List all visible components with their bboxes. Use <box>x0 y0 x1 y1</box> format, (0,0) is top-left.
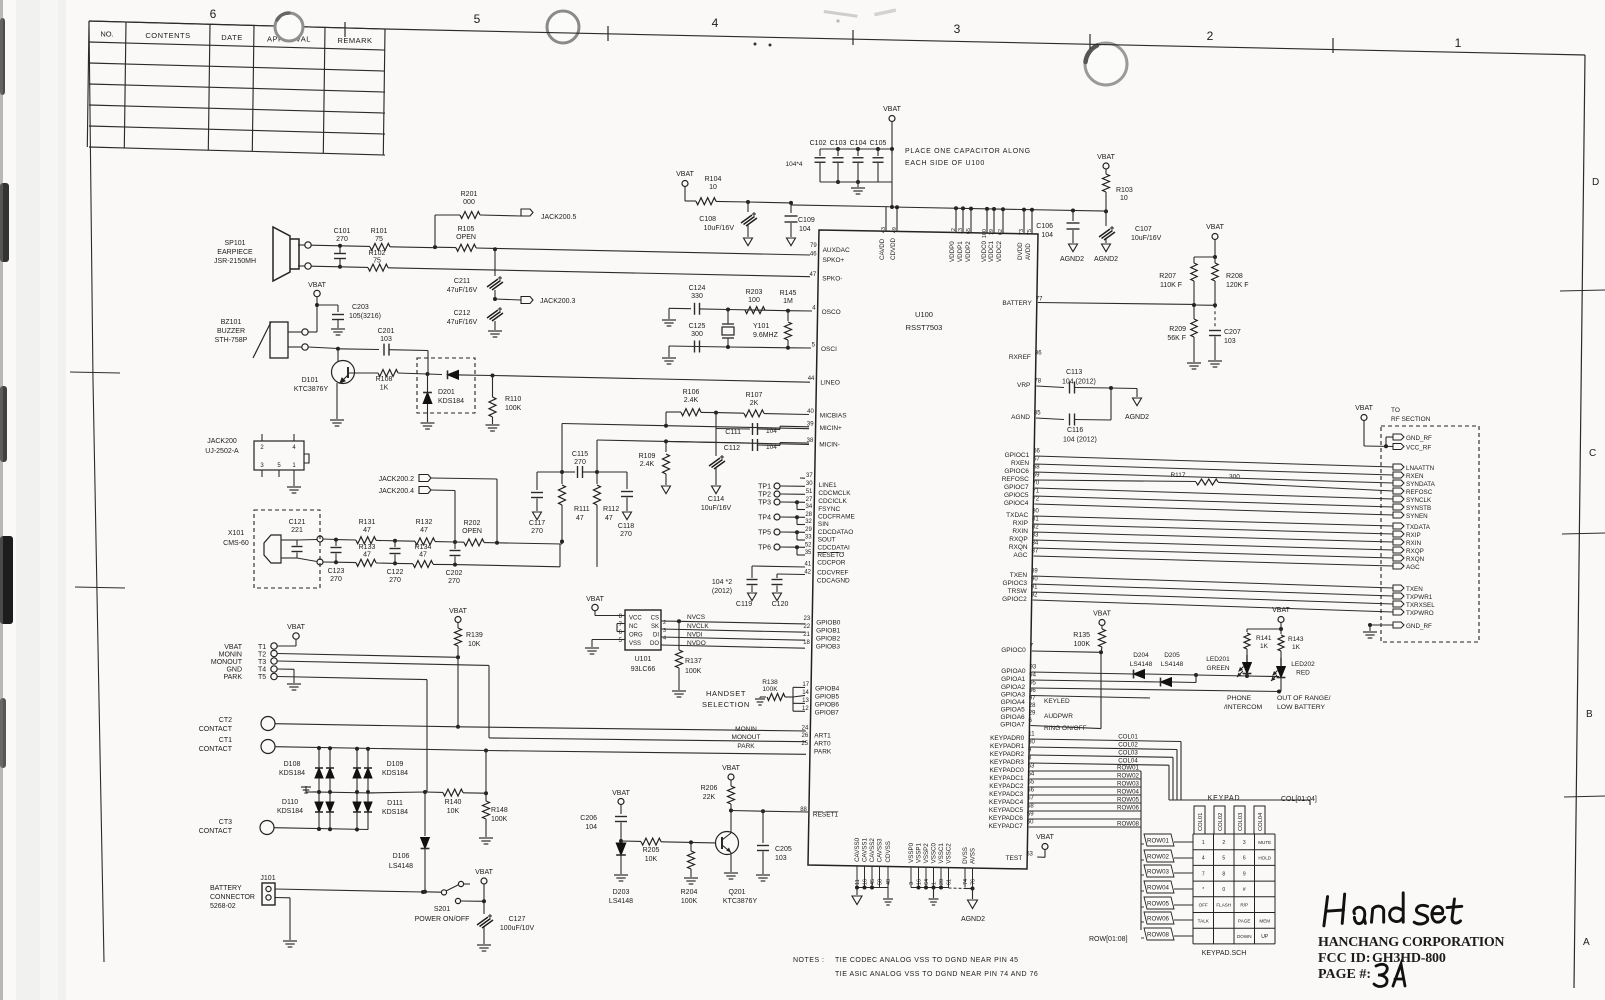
svg-text:GPIOC5: GPIOC5 <box>1004 492 1029 499</box>
svg-text:6: 6 <box>210 7 217 21</box>
svg-text:JACK200.3: JACK200.3 <box>540 298 576 305</box>
svg-text:KEYPADC1: KEYPADC1 <box>989 775 1024 782</box>
svg-text:VBAT: VBAT <box>1093 611 1111 618</box>
svg-text:TXEN: TXEN <box>1010 572 1028 579</box>
ground D203 <box>614 874 628 876</box>
keypad row tag ROW05 <box>1144 897 1174 909</box>
svg-text:SYNDATA: SYNDATA <box>1406 481 1436 488</box>
wire RING row <box>1031 726 1102 729</box>
ground CDVSS <box>887 888 889 899</box>
svg-text:CS: CS <box>651 616 659 622</box>
keypad row tag ROW06 <box>1144 912 1174 924</box>
svg-text:SELECTION: SELECTION <box>702 700 750 709</box>
wire COL bus <box>1169 799 1310 801</box>
pin JACK200.4 <box>293 434 295 441</box>
ground J101 <box>283 940 297 942</box>
svg-text:3: 3 <box>1243 840 1246 846</box>
svg-text:22K: 22K <box>703 794 716 801</box>
svg-text:VSSP0: VSSP0 <box>908 842 915 863</box>
svg-text:100K: 100K <box>505 405 522 412</box>
svg-text:CDCVREF: CDCVREF <box>817 570 848 577</box>
svg-text:RXIP: RXIP <box>1013 520 1028 527</box>
svg-text:D204: D204 <box>1133 652 1149 659</box>
svg-text:R107: R107 <box>746 392 763 399</box>
svg-text:TIE ASIC ANALOG VSS TO DGND NE: TIE ASIC ANALOG VSS TO DGND NEAR PIN 74 … <box>835 971 1038 978</box>
svg-text:D: D <box>1592 177 1599 188</box>
svg-text:VDDP1: VDDP1 <box>957 241 964 262</box>
svg-text:C114: C114 <box>708 496 724 503</box>
svg-text:B: B <box>1586 709 1593 720</box>
svg-text:2.4K: 2.4K <box>684 397 699 404</box>
svg-text:C207: C207 <box>1224 329 1241 336</box>
svg-text:KEYPADC6: KEYPADC6 <box>989 815 1024 822</box>
svg-text:PHONE: PHONE <box>1227 695 1252 702</box>
svg-text:54: 54 <box>1028 772 1035 778</box>
wire RXIN <box>1034 532 1393 542</box>
svg-text:100K: 100K <box>681 898 698 905</box>
node C108 <box>746 200 750 204</box>
zone tick D/C <box>1560 290 1605 291</box>
wire VDD rail <box>791 205 892 207</box>
pin 3 VSSP0 <box>910 867 912 888</box>
svg-text:11: 11 <box>855 879 861 885</box>
wire TXPWR1 <box>1033 584 1393 596</box>
svg-text:D111: D111 <box>387 800 403 807</box>
svg-text:CDCDATAO: CDCDATAO <box>818 529 854 536</box>
pin JACK200.2 <box>261 434 263 441</box>
svg-text:74: 74 <box>963 879 969 885</box>
svg-text:R117: R117 <box>1170 472 1185 479</box>
svg-text:86: 86 <box>1035 351 1042 357</box>
wire SYNCLK <box>1035 488 1393 499</box>
ground AGND2 mid <box>1133 398 1142 406</box>
svg-text:LS4148: LS4148 <box>609 898 633 905</box>
svg-text:51: 51 <box>806 489 813 495</box>
svg-text:RXEN: RXEN <box>1406 473 1424 480</box>
diode D201b <box>427 374 429 392</box>
wire matrix col4 <box>367 749 369 768</box>
connector pin AGC <box>1393 563 1404 569</box>
svg-text:40: 40 <box>807 409 814 415</box>
svg-text:ROW04: ROW04 <box>1117 789 1140 796</box>
svg-text:270: 270 <box>448 578 460 585</box>
wire bank drop <box>891 149 893 153</box>
wire dashed VSS link <box>949 887 966 890</box>
svg-text:GPIOC0: GPIOC0 <box>1001 647 1026 654</box>
svg-text:TP2: TP2 <box>758 492 771 499</box>
capacitor C104 <box>857 149 859 156</box>
svg-text:LOW BATTERY: LOW BATTERY <box>1277 704 1326 711</box>
ground C212 <box>488 330 502 332</box>
wire to R201 <box>434 215 436 247</box>
ground C106 <box>1069 244 1078 252</box>
svg-text:26: 26 <box>802 733 809 739</box>
svg-text:2K: 2K <box>750 400 759 407</box>
wire TP4 <box>780 516 797 518</box>
svg-text:47: 47 <box>605 515 613 522</box>
wire ROW01 <box>1030 770 1141 772</box>
svg-text:NO.: NO. <box>100 30 113 39</box>
svg-text:VCC_RF: VCC_RF <box>1406 445 1431 452</box>
ground AGND2 bottom <box>972 889 974 900</box>
svg-text:11: 11 <box>1028 732 1035 738</box>
svg-text:62: 62 <box>998 229 1004 235</box>
connector pin TXRXSEL <box>1393 601 1404 607</box>
svg-text:CDCMCLK: CDCMCLK <box>818 490 851 497</box>
svg-text:R137: R137 <box>685 658 702 665</box>
ground R137 <box>672 690 686 692</box>
wire mid rail to R140 <box>368 791 425 794</box>
svg-text:13: 13 <box>958 228 964 234</box>
svg-text:#: # <box>1243 887 1246 893</box>
svg-text:TXDATA: TXDATA <box>1406 524 1431 531</box>
svg-text:R106: R106 <box>683 389 700 396</box>
ground U101 <box>585 647 599 649</box>
wire ROW02 <box>1030 778 1141 780</box>
svg-text:AVDD: AVDD <box>1025 243 1032 260</box>
svg-text:C116: C116 <box>1067 427 1083 434</box>
svg-text:NVCLK: NVCLK <box>687 623 709 630</box>
svg-text:TP6: TP6 <box>758 545 771 552</box>
svg-text:FSYNC: FSYNC <box>818 506 840 513</box>
svg-text:GPIOA4: GPIOA4 <box>1001 699 1026 706</box>
svg-text:000: 000 <box>463 199 475 206</box>
svg-text:77: 77 <box>1036 297 1043 303</box>
svg-text:CDCICLK: CDCICLK <box>818 498 847 505</box>
svg-text:C111: C111 <box>725 429 741 436</box>
svg-text:24: 24 <box>802 725 809 731</box>
svg-text:ROW08: ROW08 <box>1147 932 1170 939</box>
svg-text:VBAT: VBAT <box>1206 224 1224 231</box>
svg-text:AGND: AGND <box>1011 414 1030 421</box>
svg-text:66: 66 <box>1033 449 1040 455</box>
svg-text:73: 73 <box>1019 229 1025 235</box>
terminal BZ101.1 <box>302 329 308 335</box>
svg-text:37: 37 <box>806 473 813 479</box>
svg-text:PLACE ONE CAPACITOR ALONG: PLACE ONE CAPACITOR ALONG <box>905 148 1031 155</box>
capacitor C118 <box>597 471 627 473</box>
svg-text:COL03: COL03 <box>1238 813 1244 831</box>
svg-text:R111: R111 <box>574 506 590 513</box>
svg-text:GPIOA3: GPIOA3 <box>1001 692 1026 699</box>
wire D205 up <box>1195 675 1197 683</box>
wire PARK long <box>275 747 486 751</box>
svg-text:0: 0 <box>1222 887 1225 893</box>
svg-text:C119: C119 <box>736 601 752 608</box>
svg-text:30: 30 <box>1028 740 1035 746</box>
svg-text:/INTERCOM: /INTERCOM <box>1224 704 1262 711</box>
svg-text:KEYPADC2: KEYPADC2 <box>989 783 1024 790</box>
connector pin VCC_RF <box>1393 444 1404 450</box>
svg-text:TXDAC: TXDAC <box>1006 512 1028 519</box>
wire cap bank bottom <box>820 181 892 183</box>
svg-text:LINE1: LINE1 <box>819 482 837 489</box>
svg-text:C120: C120 <box>772 601 789 608</box>
svg-text:R105: R105 <box>458 226 475 233</box>
svg-text:*: * <box>1202 887 1204 893</box>
svg-text:35: 35 <box>805 550 812 556</box>
svg-text:GND_RF: GND_RF <box>1406 435 1432 442</box>
wire TXRXSEL <box>1033 592 1393 604</box>
svg-text:D106: D106 <box>393 853 410 860</box>
svg-text:R143: R143 <box>1288 636 1304 643</box>
svg-text:ROW03: ROW03 <box>1147 869 1170 876</box>
svg-text:TP5: TP5 <box>758 530 771 537</box>
svg-text:U101: U101 <box>635 656 652 663</box>
svg-text:BATTERY: BATTERY <box>210 885 242 892</box>
svg-text:53: 53 <box>1028 764 1035 770</box>
diode D111b <box>364 802 372 812</box>
svg-text:COL02: COL02 <box>1118 742 1138 749</box>
wire KEYPADR1 COL02 <box>1030 747 1177 750</box>
pin 43 CAVDD <box>885 207 887 231</box>
ground CAVSS <box>856 888 858 896</box>
wire RXIP <box>1034 524 1393 534</box>
svg-text:KTC3876Y: KTC3876Y <box>294 386 329 393</box>
svg-text:R109: R109 <box>639 453 656 460</box>
svg-text:104: 104 <box>799 226 811 233</box>
svg-text:JACK200.5: JACK200.5 <box>541 214 577 221</box>
svg-text:TALK: TALK <box>1198 918 1210 923</box>
ground R148 <box>479 837 493 839</box>
svg-text:81: 81 <box>1032 517 1039 523</box>
svg-text:21: 21 <box>803 632 810 638</box>
svg-text:47: 47 <box>576 515 584 522</box>
svg-text:D203: D203 <box>613 889 630 896</box>
svg-text:FLASH: FLASH <box>1216 903 1231 908</box>
svg-text:61: 61 <box>947 879 953 885</box>
svg-text:KTC3876Y: KTC3876Y <box>723 898 758 905</box>
svg-text:POWER ON/OFF: POWER ON/OFF <box>415 916 470 923</box>
svg-text:90: 90 <box>1031 577 1038 583</box>
svg-text:VRP: VRP <box>1017 382 1030 389</box>
pin JACK200.3 <box>261 470 263 477</box>
svg-text:KDS184: KDS184 <box>277 808 303 815</box>
svg-text:MEM: MEM <box>1259 918 1270 923</box>
svg-text:93: 93 <box>1030 665 1037 671</box>
pin JACK200.5 <box>278 470 280 477</box>
svg-text:CONNECTOR: CONNECTOR <box>210 894 255 901</box>
wire GPIOA2 <box>1031 688 1279 692</box>
svg-text:RXIN: RXIN <box>1406 540 1421 547</box>
svg-text:C125: C125 <box>689 323 706 330</box>
ground T4 <box>287 683 301 685</box>
svg-text:VSSC1: VSSC1 <box>938 843 945 864</box>
svg-text:RXQP: RXQP <box>1406 548 1424 555</box>
svg-text:DI: DI <box>653 633 659 639</box>
ground VSSP <box>933 888 935 899</box>
svg-text:9.6MHZ: 9.6MHZ <box>753 332 779 339</box>
pin 49 CDVDD <box>896 207 898 231</box>
svg-text:16: 16 <box>863 879 869 885</box>
svg-text:69: 69 <box>1033 473 1040 479</box>
svg-text:RXQN: RXQN <box>1406 556 1425 563</box>
zone tick C/B <box>1562 533 1605 534</box>
svg-text:LS4148: LS4148 <box>1130 661 1153 668</box>
svg-text:C117: C117 <box>529 520 545 527</box>
wire MICIN- line38 <box>597 440 666 441</box>
svg-text:41: 41 <box>805 562 812 568</box>
svg-text:49: 49 <box>892 227 898 233</box>
svg-text:13: 13 <box>802 698 809 704</box>
wire GPIOB6 <box>792 697 794 703</box>
wire divider top <box>1194 256 1215 258</box>
zone tick 5/4 <box>607 26 609 41</box>
ground RF <box>1369 625 1371 631</box>
svg-text:270: 270 <box>389 577 401 584</box>
svg-text:DO: DO <box>650 641 659 647</box>
wire NVDO <box>661 645 805 648</box>
svg-text:R131: R131 <box>359 519 376 526</box>
svg-text:SOUT: SOUT <box>818 537 836 544</box>
svg-text:27: 27 <box>806 497 813 503</box>
svg-text:BUZZER: BUZZER <box>217 328 245 335</box>
wire TXDATA <box>1034 516 1393 526</box>
svg-text:KEYPADR0: KEYPADR0 <box>990 735 1025 742</box>
wire R135 drop <box>1100 652 1102 728</box>
ground matrix <box>306 791 319 793</box>
svg-text:34: 34 <box>806 504 813 510</box>
ground C205 <box>756 874 770 876</box>
svg-text:5: 5 <box>474 12 481 26</box>
svg-text:NVDO: NVDO <box>687 640 706 647</box>
svg-text:78: 78 <box>1034 379 1041 385</box>
connector pin REFOSC <box>1393 488 1404 494</box>
svg-text:OSCI: OSCI <box>821 346 837 353</box>
svg-text:R102: R102 <box>369 250 386 257</box>
sheet left border <box>89 21 104 962</box>
node R103 <box>1104 209 1108 213</box>
svg-text:88: 88 <box>800 807 807 813</box>
svg-text:C205: C205 <box>775 846 792 853</box>
terminal SP101.1 <box>305 242 311 248</box>
ground C119 <box>748 593 757 601</box>
ground R138 <box>760 696 763 698</box>
svg-text:47: 47 <box>810 272 817 278</box>
svg-text:UP: UP <box>1261 934 1269 940</box>
svg-text:VSSC0: VSSC0 <box>931 842 938 863</box>
svg-text:57: 57 <box>1027 796 1034 802</box>
wire LNAATTN <box>1035 456 1393 467</box>
svg-text:ROW[01:08]: ROW[01:08] <box>1089 936 1128 943</box>
svg-text:SK: SK <box>651 624 659 630</box>
pin 73 DVDD <box>1022 208 1026 212</box>
diode D108a <box>315 768 323 778</box>
connector pin RXIP <box>1393 531 1404 537</box>
svg-text:VSSC2: VSSC2 <box>946 843 953 864</box>
svg-text:FCC ID:: FCC ID: <box>1318 951 1371 966</box>
svg-text:104: 104 <box>585 824 597 831</box>
wire seg <box>376 562 395 564</box>
svg-text:RESETO: RESETO <box>817 552 844 559</box>
ground C107 <box>1102 244 1111 252</box>
svg-text:RF SECTION: RF SECTION <box>1391 416 1431 423</box>
node D201 junction <box>426 372 430 376</box>
wire TP2 <box>780 493 805 495</box>
svg-text:KEYPAD: KEYPAD <box>1208 795 1241 802</box>
wire SYNEN <box>1034 504 1393 515</box>
keypad row tag ROW08 <box>1144 928 1174 940</box>
svg-text:KEYPADR2: KEYPADR2 <box>990 751 1025 758</box>
wire TXPWRO <box>1033 600 1393 612</box>
svg-text:C121: C121 <box>289 519 306 526</box>
svg-text:DATE: DATE <box>221 33 242 42</box>
pin 16 CAVSS1 <box>864 866 866 887</box>
svg-text:AGND2: AGND2 <box>1125 414 1149 421</box>
zone tick 4/3 <box>852 30 854 45</box>
wire R104 to C109 <box>748 201 791 204</box>
switch S201 <box>425 891 441 893</box>
svg-text:93LC66: 93LC66 <box>631 666 656 673</box>
svg-text:CAVSS1: CAVSS1 <box>862 838 869 863</box>
svg-text:TP4: TP4 <box>758 515 771 522</box>
svg-text:U100: U100 <box>915 310 933 319</box>
svg-text:DOWN: DOWN <box>1237 934 1252 939</box>
node R204 <box>689 840 693 844</box>
svg-text:VBAT: VBAT <box>224 644 242 651</box>
connector pin GND_RF <box>1393 434 1404 440</box>
capacitor C114 222 <box>715 429 717 457</box>
svg-text:COL02: COL02 <box>1218 813 1224 831</box>
svg-text:R108: R108 <box>376 376 393 383</box>
diode D109b <box>364 768 372 778</box>
wire T5 PARK <box>277 677 427 680</box>
wire R111 bottom to bus <box>561 542 563 545</box>
svg-text:GPIOB6: GPIOB6 <box>815 702 840 709</box>
svg-text:KEYPAD.SCH: KEYPAD.SCH <box>1202 950 1247 957</box>
svg-text:104 (2012): 104 (2012) <box>1063 437 1097 444</box>
capacitor C120 <box>777 573 805 576</box>
svg-text:9: 9 <box>1243 871 1246 877</box>
svg-text:TP3: TP3 <box>758 500 771 507</box>
connector pin SYNEN <box>1393 512 1404 518</box>
node R106/R107 <box>714 411 718 415</box>
svg-text:TIE CODEC ANALOG VSS TO DGND N: TIE CODEC ANALOG VSS TO DGND NEAR PIN 45 <box>835 957 1019 964</box>
svg-text:R133: R133 <box>359 544 376 551</box>
svg-text:VBAT: VBAT <box>676 171 694 178</box>
svg-text:GPIOC6: GPIOC6 <box>1004 468 1029 475</box>
svg-text:GPIOB4: GPIOB4 <box>815 686 840 693</box>
connector pin RXEN <box>1393 472 1404 478</box>
svg-text:71: 71 <box>1033 489 1040 495</box>
connector pin LNAATTN <box>1393 464 1404 470</box>
svg-text:R135: R135 <box>1073 632 1090 639</box>
svg-text:T2: T2 <box>258 652 266 659</box>
svg-text:ROW01: ROW01 <box>1147 838 1170 845</box>
svg-text:1M: 1M <box>783 298 793 305</box>
svg-text:MONIN: MONIN <box>735 726 757 733</box>
svg-text:83: 83 <box>1032 533 1039 539</box>
wire ROW bus <box>1140 771 1142 930</box>
svg-text:RXIP: RXIP <box>1406 532 1421 539</box>
ground C120 <box>773 593 782 601</box>
svg-text:C105: C105 <box>870 140 887 147</box>
svg-text:68: 68 <box>1033 465 1040 471</box>
connector pin TXPWRO <box>1393 609 1404 615</box>
svg-text:56: 56 <box>1027 788 1034 794</box>
svg-text:25: 25 <box>801 741 808 747</box>
svg-text:ROW01: ROW01 <box>1117 765 1140 772</box>
svg-text:59: 59 <box>1027 812 1034 818</box>
svg-text:CAVSS2: CAVSS2 <box>869 838 876 863</box>
wire matrix col1 <box>318 748 320 768</box>
svg-text:KDS184: KDS184 <box>382 770 408 777</box>
svg-text:VDDP2: VDDP2 <box>965 241 972 262</box>
wire matrix col3 <box>356 749 358 768</box>
node JACK200.3 tap <box>493 297 497 301</box>
svg-text:VDDC1: VDDC1 <box>988 240 995 262</box>
svg-text:PAGE #:: PAGE #: <box>1318 967 1371 982</box>
